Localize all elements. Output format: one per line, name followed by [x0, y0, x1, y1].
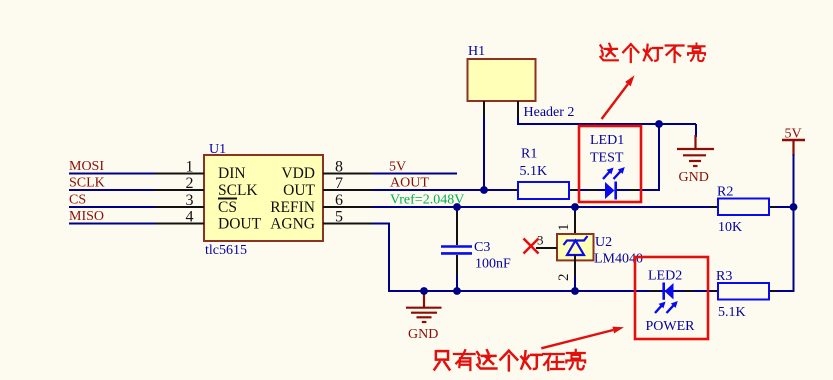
svg-text:8: 8	[335, 158, 343, 175]
LED1 light arrows	[603, 168, 624, 179]
wire H1 right pin to top rail	[518, 117, 696, 124]
power symbol 5V top right	[782, 140, 805, 156]
svg-text:POWER: POWER	[646, 319, 696, 334]
node junction AOUT / H1	[480, 186, 488, 194]
svg-text:CS: CS	[69, 193, 86, 208]
wire ground rail bottom	[389, 290, 794, 292]
svg-text:GND: GND	[679, 170, 709, 185]
U1 pin 8 VDD	[281, 158, 372, 182]
svg-text:SCLK: SCLK	[69, 176, 105, 191]
U1 pin 5 AGNG	[270, 208, 372, 232]
U1 pin 7 OUT	[283, 175, 372, 199]
U1 pin 3 CS (active low)	[155, 192, 237, 216]
LED2 light arrows	[655, 302, 677, 313]
annotation text: only this LED is lit	[434, 349, 585, 370]
svg-text:5.1K: 5.1K	[718, 305, 746, 320]
svg-text:SCLK: SCLK	[218, 182, 258, 199]
wire net MOSI	[69, 173, 155, 175]
node junction R2 / 5V	[790, 203, 798, 211]
LED2 diode symbol	[664, 283, 674, 300]
svg-text:U1: U1	[209, 142, 226, 157]
svg-text:MOSI: MOSI	[69, 159, 104, 174]
H1 right pin	[517, 101, 519, 118]
svg-text:TEST: TEST	[590, 151, 624, 166]
svg-text:REFIN: REFIN	[270, 199, 315, 216]
capacitor C3	[441, 209, 472, 291]
U1 pin 1 DIN	[155, 158, 246, 182]
wire LED1 to corner up	[616, 124, 659, 190]
H1 left pin	[483, 101, 485, 118]
svg-text:LED1: LED1	[590, 133, 624, 148]
connector H1 body	[468, 59, 536, 101]
LED2 red highlight box	[635, 257, 708, 339]
svg-text:10K: 10K	[718, 220, 742, 235]
LED1 diode symbol	[605, 182, 616, 200]
svg-text:U2: U2	[595, 235, 612, 250]
wire net SCLK	[69, 189, 155, 191]
svg-text:6: 6	[335, 192, 343, 209]
ground symbol GND bottom	[406, 293, 442, 322]
svg-text:3: 3	[186, 192, 194, 209]
svg-text:OUT: OUT	[283, 182, 315, 199]
svg-text:LED2: LED2	[648, 269, 682, 284]
resistor R3	[711, 283, 776, 300]
node junction LED1 cathode / top rail	[655, 120, 663, 128]
svg-text:5V: 5V	[389, 160, 406, 175]
no-connect X on U2 pin 3	[524, 239, 539, 254]
wire from pin 5 horizontal	[372, 223, 390, 225]
svg-text:R1: R1	[521, 147, 537, 162]
U1 pin 2 SCLK	[155, 175, 258, 199]
svg-text:1: 1	[556, 224, 572, 232]
svg-text:GND: GND	[408, 327, 438, 342]
svg-text:AGNG: AGNG	[270, 215, 315, 232]
svg-text:5.1K: 5.1K	[520, 164, 548, 179]
LED1 red highlight box	[579, 126, 641, 202]
wire net MISO	[69, 223, 155, 225]
svg-text:Vref=2.048V: Vref=2.048V	[390, 193, 464, 208]
ground symbol GND top right	[677, 124, 714, 166]
resistor R2	[711, 199, 776, 216]
svg-text:H1: H1	[468, 44, 485, 59]
svg-text:5V: 5V	[785, 127, 802, 142]
wire net 5V from pin 8	[372, 173, 457, 175]
wire H1 left pin down to AOUT node	[483, 117, 485, 190]
U1 pin 4 DOUT	[155, 208, 262, 232]
node junction Vref / C3	[453, 203, 461, 211]
svg-text:Header 2: Header 2	[524, 105, 575, 120]
wire net Vref from pin 6 to R2	[372, 206, 718, 208]
wire R1 to LED1	[576, 189, 605, 191]
annotation arrow to LED2	[541, 327, 624, 349]
svg-text:MISO: MISO	[69, 209, 104, 224]
svg-text:1: 1	[186, 158, 194, 175]
svg-text:DOUT: DOUT	[218, 215, 262, 232]
svg-text:AOUT: AOUT	[390, 176, 429, 191]
svg-text:DIN: DIN	[218, 165, 246, 182]
wire net CS	[69, 206, 155, 208]
svg-text:R3: R3	[716, 269, 732, 284]
annotation text: this LED does not light	[600, 43, 705, 62]
U1 pin 6 REFIN	[270, 192, 372, 216]
svg-text:7: 7	[335, 175, 343, 192]
node junction rail / GND	[420, 287, 428, 295]
LED2 pin stubs	[650, 290, 693, 292]
zener diode U2 LM4040	[536, 209, 594, 291]
node junction rail / U2	[571, 287, 579, 295]
node junction Vref / U2	[571, 203, 579, 211]
annotation arrow to LED1	[602, 75, 635, 119]
node junction rail / C3	[453, 287, 461, 295]
resistor R1	[511, 182, 576, 199]
svg-text:5: 5	[335, 208, 343, 225]
svg-text:CS: CS	[218, 199, 237, 216]
svg-text:2: 2	[186, 175, 194, 192]
svg-text:C3: C3	[474, 240, 490, 255]
svg-text:tlc5615: tlc5615	[205, 243, 247, 258]
wire 5V vertical down right side	[793, 154, 795, 292]
svg-text:2: 2	[556, 274, 572, 282]
svg-text:4: 4	[186, 208, 194, 225]
LED1 pin stubs	[589, 189, 638, 191]
wire net AOUT from pin 7	[372, 189, 518, 191]
wire R2 to 5V vertical	[769, 206, 794, 208]
wire from pin 5 vertical down to ground rail	[388, 224, 390, 293]
op-amp U1 tlc5615 body	[204, 155, 323, 241]
svg-text:VDD: VDD	[281, 165, 315, 182]
svg-text:100nF: 100nF	[475, 257, 511, 272]
svg-text:R2: R2	[717, 185, 733, 200]
